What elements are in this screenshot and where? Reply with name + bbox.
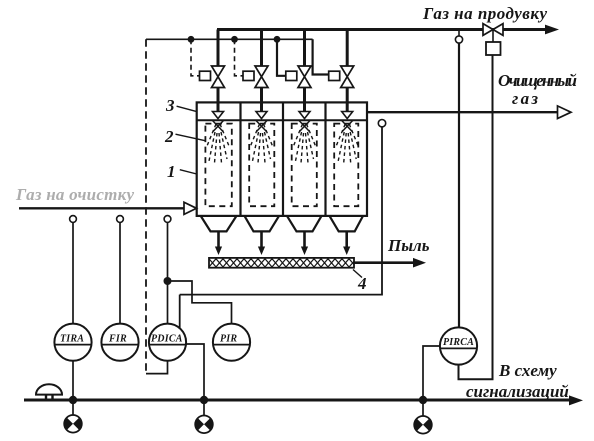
svg-text:1: 1 — [167, 162, 176, 181]
instrument PIRCA — [440, 327, 477, 364]
node: pressure tap on clean gas line — [378, 120, 385, 127]
spray chamber 4 — [342, 121, 353, 132]
dust drop arrow 1 — [217, 231, 220, 247]
instrument TIRA — [54, 324, 91, 361]
wire: alarm signal line — [24, 399, 570, 402]
label 2 leader — [176, 134, 205, 140]
filter bag chamber 3 (dashed) — [292, 124, 317, 207]
wire: PDICA alarm output — [186, 344, 204, 400]
vessel: divider wall 3 — [324, 102, 326, 215]
svg-text:газ: газ — [512, 89, 538, 108]
node: inlet tap PDICA — [164, 216, 171, 223]
spray chamber 1 — [213, 121, 224, 132]
instrument PIR — [213, 324, 250, 361]
wire: clean-side tap to PDICA — [180, 127, 382, 295]
pipe: clean gas outlet — [367, 111, 558, 113]
valve V1 — [212, 66, 225, 88]
dust drop arrow 3 — [303, 231, 306, 247]
node: inlet tap FIR — [117, 216, 124, 223]
dust drop arrow 4 — [345, 231, 348, 247]
label 3 leader — [177, 106, 197, 111]
pipe: riser to valve V3 — [303, 30, 306, 67]
screw conveyor 4 — [209, 258, 354, 268]
svg-text:PDICA: PDICA — [151, 334, 183, 345]
svg-text:4: 4 — [357, 274, 367, 293]
pipe: riser to valve V4 — [346, 30, 349, 67]
svg-text:FIR: FIR — [108, 334, 127, 345]
actuator box valve V3 — [286, 71, 297, 80]
node junction 3 — [274, 36, 281, 43]
nozzle chamber 4 — [342, 112, 353, 119]
svg-text:PIRCA: PIRCA — [443, 337, 474, 348]
filter bag chamber 2 (dashed) — [249, 124, 274, 207]
node junction PDICA on alarm line — [200, 396, 208, 404]
node junction 1 — [188, 36, 195, 43]
instrument PDICA — [149, 324, 186, 361]
node junction on PDICA tap line — [164, 277, 172, 285]
svg-text:PIR: PIR — [220, 334, 237, 345]
nozzle chamber 1 — [213, 112, 224, 119]
wire: PIRCA alarm output — [423, 346, 440, 400]
purge shutoff valve — [483, 24, 503, 36]
hopper chamber 3 — [287, 216, 322, 232]
label 1 leader — [180, 170, 197, 174]
wire: tap to FIR — [119, 222, 121, 323]
wire: tap to PIRCA — [458, 43, 460, 327]
spray chamber 2 — [256, 121, 267, 132]
svg-text:Очищенный: Очищенный — [498, 71, 577, 90]
vessel: divider wall 2 — [282, 102, 284, 215]
wire: tap to TIRA — [72, 222, 74, 323]
wire: control signal manifold — [146, 38, 313, 40]
actuator box valve V2 — [243, 71, 254, 80]
node junction TIRA on alarm line — [69, 396, 77, 404]
svg-text:2: 2 — [164, 127, 174, 146]
svg-text:3: 3 — [165, 96, 175, 115]
valve V4 — [341, 66, 354, 88]
svg-text:Пыль: Пыль — [387, 236, 430, 255]
vessel: divider wall 1 — [239, 102, 241, 215]
valve V3 — [298, 66, 311, 88]
nozzle chamber 2 — [256, 112, 267, 119]
wire: control branch 1 (dashed) — [191, 39, 200, 76]
filter bag chamber 4 (dashed) — [334, 124, 358, 207]
node: inlet tap TIRA — [70, 216, 77, 223]
instrument FIR — [101, 324, 138, 361]
svg-text:В схему: В схему — [498, 361, 557, 380]
vessel: filter housing outer box — [197, 102, 367, 215]
filter bag chamber 1 (dashed) — [205, 124, 231, 207]
lamp HL2 — [203, 400, 205, 416]
valve V2 — [255, 66, 268, 88]
wire: junction to PIR — [168, 281, 232, 324]
wire: control branch 4 — [313, 39, 329, 74]
pipe: dirty gas inlet — [19, 207, 184, 209]
hopper chamber 1 — [201, 216, 237, 232]
wire: PDICA control output to purge valves (dashed riser) — [145, 39, 147, 373]
wire: tap to PDICA — [167, 222, 169, 323]
svg-text:сигнализаций: сигнализаций — [466, 382, 569, 401]
actuator box valve V4 — [329, 71, 340, 80]
wire: TIRA to alarm line — [72, 361, 74, 400]
alarm bell — [36, 384, 62, 394]
purge valve actuator stem — [492, 30, 494, 43]
wire: control branch 3 — [277, 39, 286, 76]
svg-text:TIRA: TIRA — [60, 334, 84, 345]
dust drop arrow 2 — [260, 231, 263, 247]
node junction 2 — [231, 36, 238, 43]
lamp HL1 — [72, 400, 74, 415]
node junction PIRCA on alarm line — [419, 396, 427, 404]
arrow to signal circuit — [569, 395, 583, 405]
pipe: riser to valve V2 — [260, 30, 263, 67]
pipe: purge gas manifold — [217, 28, 548, 31]
nozzle chamber 3 — [299, 112, 310, 119]
svg-text:Газ на продувку: Газ на продувку — [422, 4, 547, 23]
wire: purge valve control from PIRCA — [459, 55, 493, 379]
pipe: riser to valve V1 — [217, 30, 220, 67]
hopper chamber 4 — [330, 216, 364, 232]
wire: control branch 2 (dashed) — [235, 39, 244, 76]
spray chamber 3 — [299, 121, 310, 132]
lamp HL3 — [422, 400, 424, 416]
arrow dust out — [413, 258, 426, 268]
arrow gas inlet (open) — [184, 202, 197, 214]
arrow purge gas out — [545, 25, 559, 35]
arrow clean gas (open) — [558, 106, 572, 119]
label 4 leader — [353, 270, 362, 278]
actuator box valve V1 — [200, 71, 211, 80]
svg-text:Газ на очистку: Газ на очистку — [15, 185, 134, 204]
hopper chamber 2 — [245, 216, 280, 232]
vessel: header plate line — [197, 119, 367, 121]
pipe: dust out — [354, 261, 415, 264]
node: pressure tap on purge line — [458, 31, 460, 36]
purge valve actuator box — [486, 42, 501, 55]
